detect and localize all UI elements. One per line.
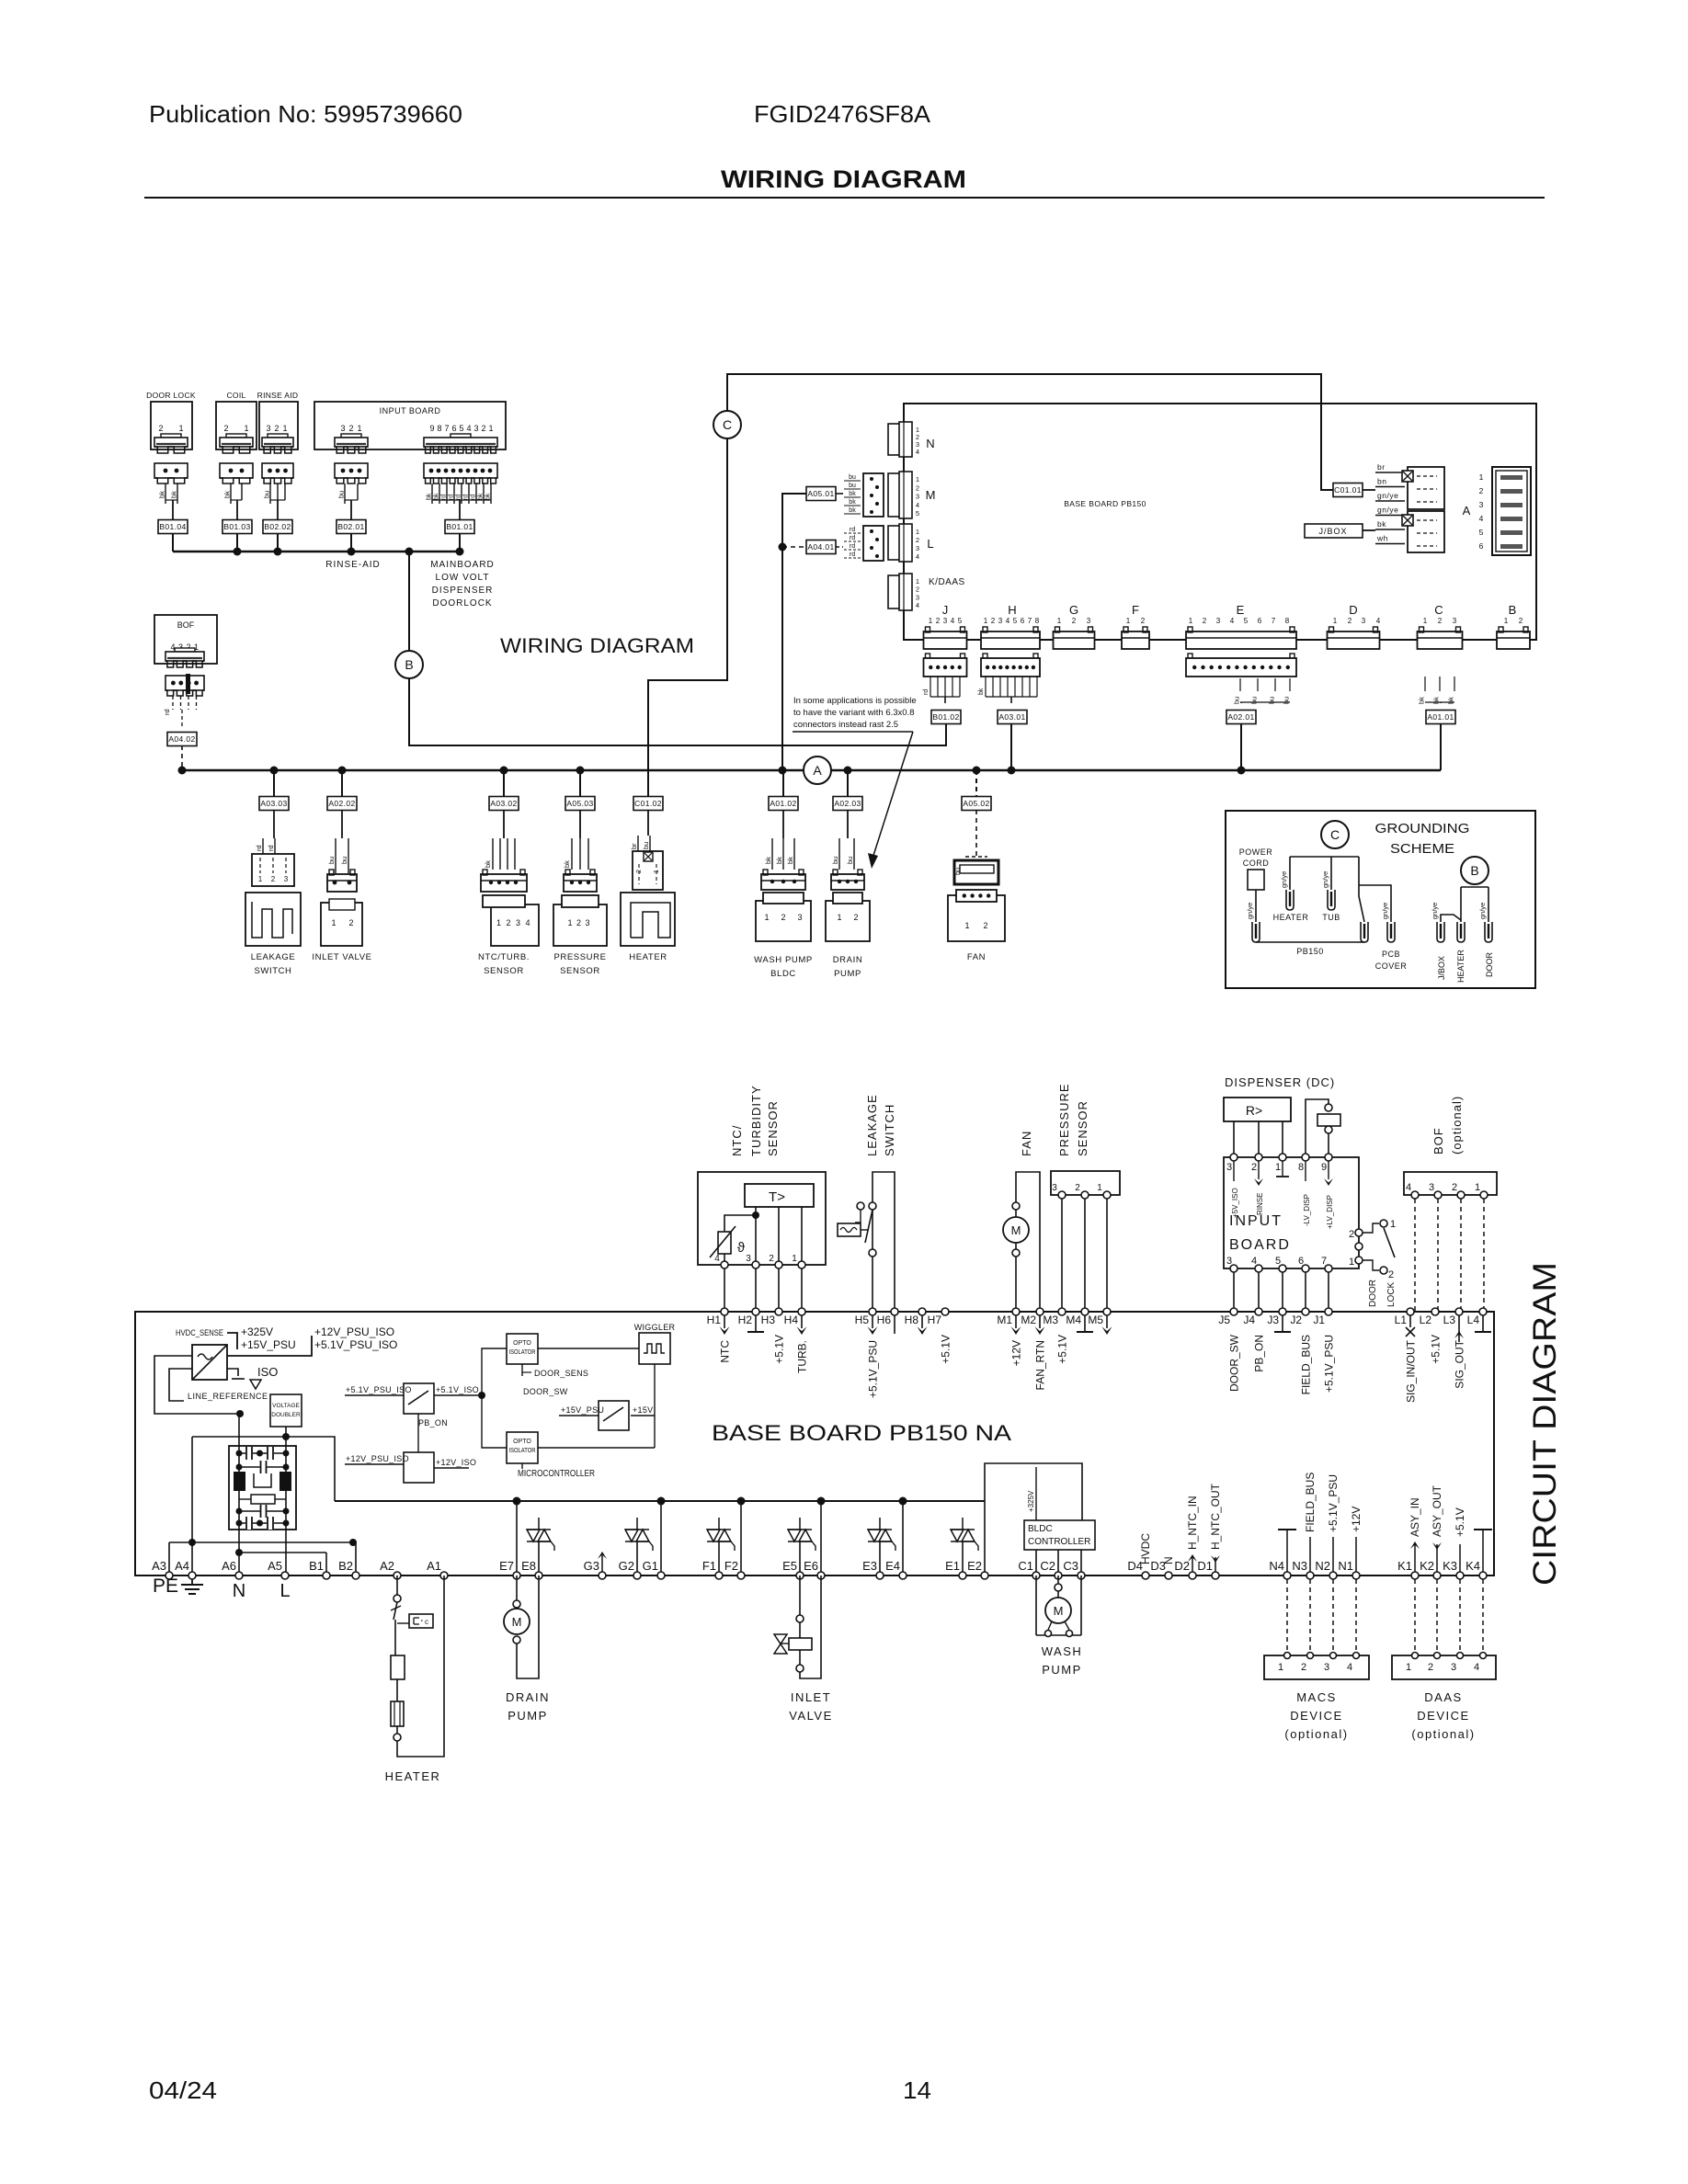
svg-text:1: 1: [1390, 1219, 1396, 1230]
triac E1: [951, 1530, 964, 1541]
svg-text:bk: bk: [775, 857, 783, 864]
svg-text:SENSOR: SENSOR: [560, 966, 600, 976]
svg-text:6: 6: [1298, 1256, 1304, 1267]
svg-text:7: 7: [1028, 617, 1032, 625]
svg-text:+LV_DISP: +LV_DISP: [1326, 1195, 1334, 1229]
bof box circuit: [1404, 1172, 1497, 1195]
svg-text:2: 2: [1141, 617, 1146, 625]
svg-text:1: 1: [1189, 617, 1193, 625]
svg-text:COIL: COIL: [226, 391, 245, 400]
svg-text:bu: bu: [1250, 697, 1259, 704]
svg-text:C2: C2: [1040, 1559, 1055, 1573]
svg-text:bk: bk: [484, 860, 492, 868]
e3 e4 channel wires: [902, 1501, 904, 1575]
svg-text:A05.03: A05.03: [566, 799, 593, 808]
svg-text:A04.01: A04.01: [807, 542, 834, 552]
svg-text:rd: rd: [456, 495, 462, 500]
svg-text:SIG_OUT: SIG_OUT: [1454, 1339, 1466, 1388]
svg-text:9: 9: [429, 424, 434, 433]
leakage switch contact box: [252, 854, 294, 886]
tub ground pin: [1328, 890, 1335, 910]
terminal A3: [165, 1572, 173, 1579]
svg-text:PB_ON: PB_ON: [418, 1418, 448, 1428]
pressure sensor pins: [1058, 1191, 1066, 1199]
terminal E8: [535, 1572, 542, 1579]
connector E wires to A02.01: [1239, 678, 1241, 691]
svg-text:L4: L4: [1467, 1314, 1480, 1326]
wire A03.01 to bus A: [1010, 724, 1012, 770]
terminal J3: [1279, 1308, 1286, 1315]
A05.01 female connector: [863, 473, 884, 517]
svg-text:DEVICE: DEVICE: [1417, 1709, 1469, 1723]
svg-text:3: 3: [797, 913, 802, 922]
svg-text:ϑ: ϑ: [737, 1240, 746, 1256]
base board PB150 outline: [904, 404, 1536, 640]
svg-text:5: 5: [459, 424, 463, 433]
svg-text:B1: B1: [309, 1559, 324, 1573]
svg-text:4: 4: [466, 424, 471, 433]
svg-text:SIG_IN/OUT: SIG_IN/OUT: [1405, 1339, 1418, 1403]
svg-text:3: 3: [284, 875, 289, 883]
terminal H5: [869, 1308, 876, 1315]
svg-text:5: 5: [1275, 1256, 1281, 1267]
svg-text:gn/ye: gn/ye: [1377, 491, 1398, 500]
wire A05.01 to bus A: [782, 494, 806, 770]
svg-text:4: 4: [714, 1254, 720, 1264]
connector id box A05.03: [565, 797, 595, 811]
svg-text:PE: PE: [153, 1575, 178, 1597]
svg-text:SWITCH: SWITCH: [254, 966, 291, 976]
svg-text:2: 2: [853, 913, 858, 922]
terminal G1: [657, 1572, 665, 1579]
svg-text:+5.1V_PSU: +5.1V_PSU: [1323, 1335, 1336, 1393]
fan circuit: [1016, 1172, 1040, 1312]
svg-text:+5.1V_PSU: +5.1V_PSU: [1327, 1474, 1340, 1532]
terminal B1: [323, 1572, 330, 1579]
svg-text:bk: bk: [849, 499, 856, 506]
terminal E4: [899, 1572, 907, 1579]
svg-text:bn: bn: [1377, 477, 1386, 486]
svg-text:J5: J5: [1218, 1314, 1230, 1326]
svg-text:5: 5: [1479, 528, 1484, 537]
wire balloon B down and right to B01.02: [409, 678, 946, 745]
svg-text:rd: rd: [267, 845, 275, 851]
svg-text:L1: L1: [1395, 1314, 1408, 1326]
svg-text:DOOR: DOOR: [1485, 951, 1494, 977]
svg-text:G2: G2: [619, 1559, 634, 1573]
svg-text:rd: rd: [441, 495, 448, 500]
dispenser wires: [1233, 1121, 1235, 1157]
svg-text:bu: bu: [337, 491, 346, 498]
terminal M2: [1036, 1308, 1044, 1315]
svg-text:rd: rd: [471, 495, 477, 500]
f1 f2 channel wires: [740, 1501, 742, 1575]
svg-text:ISOLATOR: ISOLATOR: [509, 1448, 536, 1454]
macs device connector: [1264, 1655, 1369, 1679]
svg-text:2: 2: [1519, 617, 1523, 625]
svg-text:SENSOR: SENSOR: [484, 966, 524, 976]
connector id box C01.01: [1333, 483, 1363, 497]
svg-text:D: D: [1349, 603, 1357, 617]
svg-text:5: 5: [916, 509, 919, 518]
terminal A1: [440, 1572, 448, 1579]
dispenser aux component: [1306, 1099, 1329, 1157]
svg-text:HEATER: HEATER: [385, 1769, 441, 1783]
pb150 ground pin: [1361, 922, 1368, 942]
pcb cover ground pin: [1387, 922, 1395, 942]
wash pump body: [756, 901, 811, 941]
terminal N3: [1306, 1572, 1314, 1579]
svg-text:N2: N2: [1315, 1559, 1330, 1573]
svg-text:N4: N4: [1269, 1559, 1284, 1573]
b group wires: [1461, 886, 1488, 888]
terminal J4: [1255, 1308, 1262, 1315]
svg-text:WASH PUMP: WASH PUMP: [754, 955, 813, 965]
svg-text:rd: rd: [255, 845, 263, 851]
svg-text:4: 4: [1406, 1182, 1411, 1193]
svg-text:TURB.: TURB.: [796, 1340, 809, 1373]
voltage doubler box: [270, 1394, 302, 1427]
svg-text:3: 3: [1226, 1256, 1232, 1267]
wiggler box: [639, 1333, 670, 1364]
power cord ground pin: [1252, 922, 1260, 942]
svg-text:+5.1V_PSU_ISO: +5.1V_PSU_ISO: [314, 1338, 397, 1351]
terminal H4: [798, 1308, 805, 1315]
fan body: [948, 895, 1005, 941]
terminal F2: [737, 1572, 745, 1579]
svg-text:DOORLOCK: DOORLOCK: [432, 598, 492, 609]
svg-text:LOCK: LOCK: [1386, 1281, 1397, 1307]
terminal M4: [1081, 1308, 1089, 1315]
A04.01 wire colour labels: [836, 546, 843, 548]
svg-text:H8: H8: [905, 1314, 919, 1326]
terminal D2: [1189, 1572, 1196, 1579]
internal power bus: [335, 1500, 985, 1502]
terminal M5: [1103, 1308, 1111, 1315]
svg-text:1: 1: [1057, 617, 1062, 625]
svg-text:3: 3: [266, 424, 270, 433]
relay connector block upper: [1408, 467, 1444, 509]
terminal E3: [876, 1572, 884, 1579]
svg-text:G1: G1: [643, 1559, 658, 1573]
svg-text:+15V_PSU: +15V_PSU: [241, 1338, 296, 1351]
svg-text:DEVICE: DEVICE: [1290, 1709, 1342, 1723]
svg-text:J4: J4: [1243, 1314, 1255, 1326]
svg-text:INLET VALVE: INLET VALVE: [312, 952, 371, 962]
svg-text:6: 6: [1479, 541, 1484, 551]
terminal G2: [633, 1572, 641, 1579]
svg-text:+15V: +15V: [633, 1405, 653, 1415]
svg-text:1: 1: [837, 913, 841, 922]
svg-text:B: B: [405, 657, 413, 672]
svg-text:H5: H5: [855, 1314, 870, 1326]
svg-text:HEATER: HEATER: [629, 952, 667, 962]
svg-text:rd: rd: [850, 552, 855, 558]
terminal C3: [1078, 1572, 1085, 1579]
svg-text:RINSE: RINSE: [1256, 1193, 1264, 1215]
svg-text:J: J: [942, 603, 949, 617]
header rule: [144, 197, 1545, 199]
connector id box A04.01: [806, 540, 836, 554]
svg-text:M3: M3: [1043, 1314, 1058, 1326]
svg-text:J1: J1: [1313, 1314, 1325, 1326]
connector id box A05.01: [806, 487, 836, 501]
triac G2: [625, 1530, 638, 1541]
dispenser R box: [1224, 1098, 1291, 1121]
connector id box A02.01: [1226, 711, 1256, 724]
svg-text:BOF: BOF: [1431, 1127, 1445, 1155]
svg-text:M2: M2: [1021, 1314, 1036, 1326]
balloon C: [713, 411, 741, 438]
wire A04.02 to bus A: [181, 745, 183, 770]
terminal H1: [721, 1308, 728, 1315]
svg-text:1: 1: [916, 577, 919, 586]
svg-text:3: 3: [916, 544, 919, 552]
terminal K1: [1411, 1572, 1419, 1579]
svg-text:gn/ye: gn/ye: [1478, 903, 1487, 919]
svg-text:rd: rd: [850, 535, 855, 541]
terminal A2: [393, 1572, 401, 1579]
terminal A4: [188, 1572, 196, 1579]
svg-text:M4: M4: [1066, 1314, 1081, 1326]
heater body: [621, 893, 675, 946]
svg-text:bk: bk: [223, 491, 232, 498]
svg-text:2: 2: [1388, 1269, 1394, 1280]
svg-text:8: 8: [437, 424, 441, 433]
terminal A6: [235, 1572, 243, 1579]
wire opto to wiggler: [538, 1348, 639, 1349]
svg-text:2: 2: [1479, 486, 1484, 495]
svg-text:COVER: COVER: [1375, 961, 1408, 971]
svg-text:G3: G3: [584, 1559, 599, 1573]
wire balloon C to C01.01: [727, 374, 1334, 490]
svg-text:D2: D2: [1174, 1559, 1190, 1573]
svg-text:DAAS: DAAS: [1424, 1690, 1462, 1704]
svg-text:A3: A3: [152, 1559, 166, 1573]
svg-text:to have the variant with 6.3x0: to have the variant with 6.3x0.8: [793, 708, 915, 718]
terminal K4: [1479, 1572, 1487, 1579]
heater resistor 1: [391, 1655, 405, 1679]
svg-text:bk: bk: [1432, 697, 1441, 704]
svg-text:rd: rd: [163, 709, 171, 715]
svg-text:TUB: TUB: [1322, 913, 1340, 922]
svg-text:+12V_ISO: +12V_ISO: [436, 1458, 476, 1467]
svg-text:2: 2: [1348, 617, 1352, 625]
svg-text:FAN_RTN: FAN_RTN: [1034, 1340, 1047, 1390]
svg-text:B01.04: B01.04: [159, 522, 186, 531]
svg-text:6: 6: [451, 424, 456, 433]
svg-text:+325V: +325V: [1027, 1490, 1035, 1512]
svg-text:2: 2: [1072, 617, 1077, 625]
svg-text:K1: K1: [1397, 1559, 1412, 1573]
door lock switch circuit: [1355, 1229, 1363, 1236]
terminal E1: [959, 1572, 966, 1579]
svg-text:br: br: [1377, 462, 1386, 472]
wash pump bldc stack: [782, 770, 784, 797]
svg-text:bu: bu: [1283, 697, 1291, 704]
svg-text:C01.02: C01.02: [634, 799, 662, 808]
input board bottom pins: [1230, 1265, 1237, 1272]
cap row 2: [239, 1466, 286, 1468]
iso ground: [227, 1369, 238, 1376]
pe ground symbol: [191, 1579, 193, 1585]
heater ground pin: [1286, 890, 1294, 910]
svg-text:1: 1: [282, 424, 287, 433]
svg-text:C3: C3: [1063, 1559, 1078, 1573]
svg-text:E3: E3: [862, 1559, 877, 1573]
svg-text:1: 1: [1278, 1662, 1283, 1673]
terminal J1: [1325, 1308, 1332, 1315]
svg-text:4: 4: [951, 617, 955, 625]
svg-text:VOLTAGE: VOLTAGE: [272, 1403, 300, 1409]
svg-text:bk: bk: [485, 493, 492, 500]
svg-text:A04.02: A04.02: [168, 734, 195, 744]
svg-text:1: 1: [964, 921, 969, 930]
svg-text:bu: bu: [1233, 697, 1241, 704]
svg-text:K4: K4: [1466, 1559, 1480, 1573]
svg-text:2: 2: [1438, 617, 1443, 625]
BOF connector group: [154, 615, 217, 664]
grounding balloon C: [1321, 821, 1349, 848]
svg-text:3: 3: [1429, 1182, 1434, 1193]
line reference wires: [154, 1356, 240, 1414]
terminal D1: [1212, 1572, 1219, 1579]
svg-text:2: 2: [481, 424, 485, 433]
svg-text:gn/ye: gn/ye: [1246, 903, 1254, 919]
svg-text:J3: J3: [1267, 1314, 1279, 1326]
svg-text:c: c: [425, 1618, 428, 1626]
svg-text:2: 2: [916, 586, 919, 594]
svg-text:B01.01: B01.01: [446, 522, 473, 531]
heater ground wire: [1290, 856, 1359, 858]
svg-text:bk: bk: [786, 857, 794, 864]
balloon B: [395, 651, 423, 678]
pressure sensor stack: [579, 770, 581, 797]
svg-text:Publication No: 5995739660: Publication No: 5995739660: [149, 100, 462, 128]
connector id box A03.03: [259, 797, 289, 811]
bldc wires to wash pump pins: [1035, 1550, 1037, 1575]
svg-text:bk: bk: [849, 491, 856, 497]
svg-text:H7: H7: [928, 1314, 942, 1326]
pb_on to 12v wire: [417, 1414, 419, 1452]
svg-text:+5.1V: +5.1V: [1056, 1335, 1069, 1364]
svg-text:In some applications is possib: In some applications is possible: [793, 696, 917, 706]
svg-text:1: 1: [244, 424, 248, 433]
wash pump motor: [1045, 1598, 1071, 1623]
svg-text:A02.03: A02.03: [834, 799, 861, 808]
svg-text:BLDC: BLDC: [770, 969, 796, 979]
svg-text:1: 1: [331, 918, 336, 927]
svg-text:6: 6: [1021, 617, 1025, 625]
svg-text:B02.02: B02.02: [264, 522, 291, 531]
svg-text:rd: rd: [463, 495, 470, 500]
svg-text:ASY_IN: ASY_IN: [1409, 1497, 1421, 1537]
svg-text:H_NTC_OUT: H_NTC_OUT: [1209, 1483, 1222, 1550]
svg-text:2: 2: [1428, 1662, 1433, 1673]
svg-text:M5: M5: [1088, 1314, 1103, 1326]
svg-text:H6: H6: [877, 1314, 892, 1326]
fan stack: [975, 770, 977, 797]
terminal J5: [1230, 1308, 1237, 1315]
svg-text:M: M: [926, 488, 936, 502]
svg-text:2: 2: [348, 918, 353, 927]
svg-text:(optional): (optional): [1284, 1727, 1348, 1741]
svg-text:8: 8: [1298, 1162, 1304, 1173]
svg-text:2: 2: [1251, 1162, 1257, 1173]
terminal H3: [775, 1308, 782, 1315]
svg-text:bk: bk: [434, 493, 440, 500]
svg-text:E8: E8: [521, 1559, 536, 1573]
svg-text:br: br: [630, 843, 638, 849]
svg-text:FGID2476SF8A: FGID2476SF8A: [754, 100, 931, 128]
svg-text:A1: A1: [427, 1559, 441, 1573]
svg-text:bu: bu: [846, 857, 854, 864]
door ground pin: [1485, 922, 1492, 942]
svg-text:1: 1: [1275, 1162, 1281, 1173]
ntc sensor connector: [481, 874, 527, 892]
terminal L4: [1479, 1308, 1487, 1315]
svg-text:A01.01: A01.01: [1427, 712, 1454, 722]
svg-text:bk: bk: [1377, 519, 1386, 529]
svg-text:+15V_PSU: +15V_PSU: [561, 1405, 604, 1415]
svg-text:8: 8: [1035, 617, 1040, 625]
svg-text:INPUT BOARD: INPUT BOARD: [380, 406, 441, 415]
svg-text:4: 4: [1347, 1662, 1352, 1673]
inlet valve connector: [327, 874, 357, 892]
svg-text:2: 2: [348, 424, 353, 433]
svg-text:connectors instead rast 2.5: connectors instead rast 2.5: [793, 720, 898, 730]
leakage switch stack: [273, 770, 275, 797]
svg-text:M: M: [1011, 1223, 1021, 1237]
svg-text:gn/ye: gn/ye: [1280, 871, 1288, 888]
connector id box B01.01: [445, 520, 474, 534]
terminal E7: [513, 1572, 520, 1579]
svg-text:C01.01: C01.01: [1334, 485, 1362, 495]
svg-text:B: B: [1470, 863, 1478, 878]
connector id box A03.01: [998, 711, 1027, 724]
cap row bottom: [239, 1522, 286, 1524]
svg-text:B01.02: B01.02: [932, 712, 959, 722]
svg-text:A03.01: A03.01: [998, 712, 1025, 722]
svg-text:4: 4: [916, 601, 919, 609]
svg-text:2: 2: [271, 875, 276, 883]
svg-text:bk: bk: [1418, 697, 1426, 704]
electrolytic cap left: [234, 1472, 245, 1491]
svg-text:A5: A5: [268, 1559, 282, 1573]
svg-text:rd: rd: [850, 527, 855, 533]
svg-text:bk: bk: [158, 491, 166, 498]
svg-text:1: 1: [1423, 617, 1428, 625]
svg-text:bu: bu: [849, 474, 856, 481]
A04.01 female connector: [863, 526, 884, 561]
svg-text:B2: B2: [338, 1559, 353, 1573]
svg-text:MACS: MACS: [1296, 1690, 1337, 1704]
rotated signals above K pins: [1414, 1544, 1416, 1572]
svg-text:5: 5: [958, 617, 963, 625]
cap row top: [239, 1452, 286, 1454]
thermal switch T box: [745, 1184, 814, 1207]
svg-text:C: C: [1330, 827, 1340, 842]
pb_on switch box: [404, 1383, 434, 1414]
drain pump stack: [847, 770, 849, 797]
svg-text:L: L: [279, 1581, 290, 1601]
grounding balloon B: [1461, 857, 1488, 884]
b1 neutral wire: [239, 1552, 326, 1553]
svg-text:ISO: ISO: [257, 1365, 278, 1379]
svg-text:SENSOR: SENSOR: [766, 1100, 780, 1156]
triac E8: [527, 1530, 540, 1541]
note arrow: [872, 732, 913, 861]
